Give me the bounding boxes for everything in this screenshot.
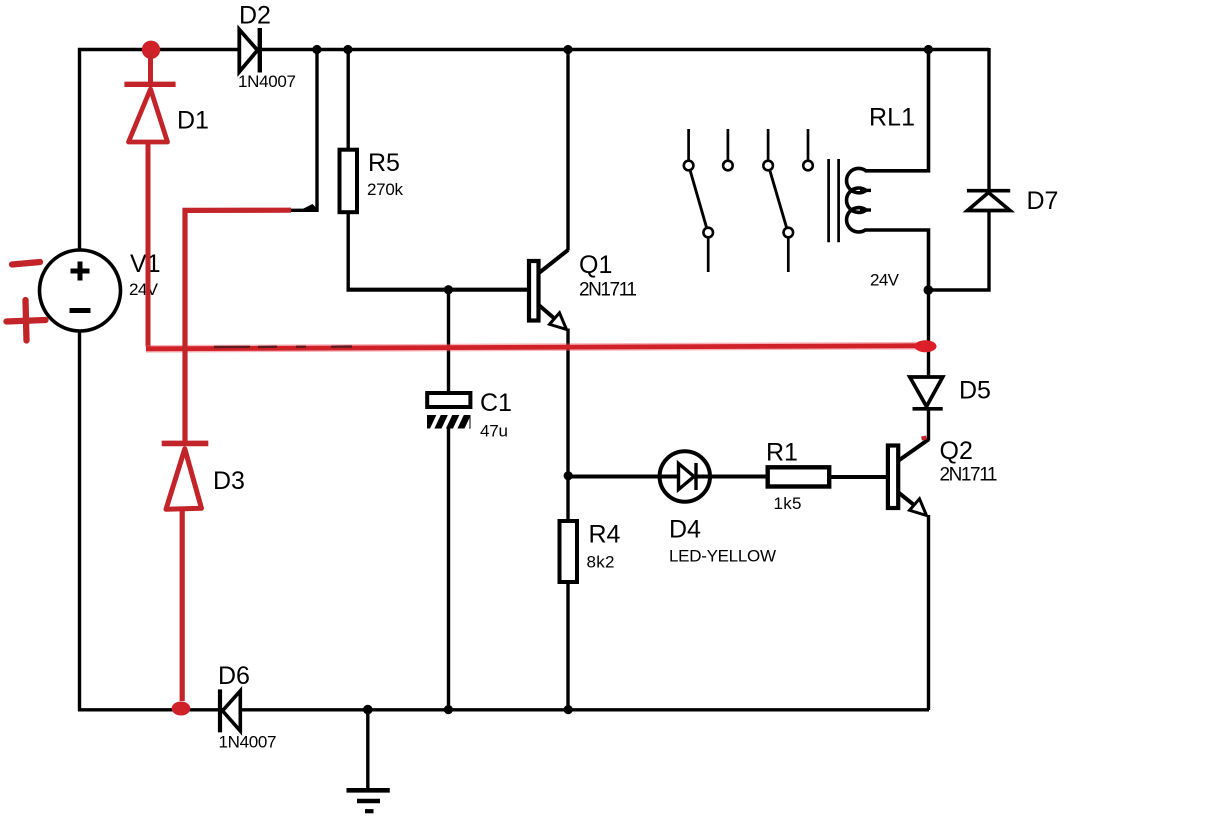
svg-text:D7: D7 — [1027, 187, 1059, 215]
wire relay right vertical from top rail — [865, 50, 929, 171]
svg-text:D3: D3 — [213, 467, 245, 495]
red annotation: marker line end blob — [915, 340, 937, 352]
svg-text:47u: 47u — [480, 422, 508, 441]
diode D5 — [910, 377, 991, 409]
wire Q1 base horizontal — [347, 288, 531, 292]
diode D6 — [218, 662, 277, 752]
svg-text:D6: D6 — [218, 662, 250, 690]
LED D4 — [660, 451, 776, 565]
svg-text:1N4007: 1N4007 — [219, 733, 277, 752]
svg-text:RL1: RL1 — [869, 104, 915, 132]
transistor Q1 — [529, 250, 637, 330]
wire stub from top rail down to red tap node — [286, 50, 317, 211]
diode D7 — [967, 187, 1059, 215]
svg-text:2N1711: 2N1711 — [579, 280, 637, 301]
svg-text:LED-YELLOW: LED-YELLOW — [669, 547, 776, 566]
red annotation: dark smudges on marker line — [214, 345, 352, 348]
svg-text:D2: D2 — [239, 2, 271, 30]
wire D5 cathode to Q2 collector — [927, 407, 930, 441]
wire R1 to Q2 base — [829, 475, 889, 479]
ground — [347, 790, 390, 811]
resistor R4 — [560, 521, 621, 583]
voltage source V1 — [40, 250, 161, 331]
svg-text:Q2: Q2 — [940, 437, 973, 465]
red annotation: tap branch wire — [185, 210, 291, 442]
wire C1 bottom to bottom rail — [447, 427, 450, 710]
red annotation: diode D1 — [124, 52, 175, 347]
svg-text:24V: 24V — [129, 280, 159, 299]
wire node 24V to D7 bottom — [927, 211, 989, 290]
relay switch poles (circles) — [684, 161, 813, 238]
svg-text:Q1: Q1 — [579, 251, 612, 279]
red annotation: long horizontal marker line — [146, 346, 926, 349]
svg-text:1N4007: 1N4007 — [238, 72, 296, 91]
svg-text:D4: D4 — [669, 516, 701, 544]
diode D2 — [238, 2, 296, 92]
svg-text:D1: D1 — [177, 107, 209, 135]
wire LED branch horizontal — [568, 475, 769, 479]
svg-text:270k: 270k — [367, 180, 404, 199]
svg-text:R5: R5 — [368, 149, 400, 177]
relay switch blades — [690, 170, 787, 228]
red annotation: small mark at Q2 collector — [922, 438, 927, 439]
red annotation: supply polarity minus — [12, 262, 40, 265]
wire D7 top to top rail — [987, 48, 990, 192]
wire relay coil bottom to node — [865, 230, 929, 290]
wire ground drop — [366, 710, 369, 790]
svg-text:1k5: 1k5 — [774, 494, 802, 513]
red annotation: supply polarity plus — [7, 300, 46, 341]
red annotation: diode D3 — [162, 443, 209, 701]
resistor R1 — [766, 439, 829, 514]
capacitor C1 — [427, 389, 512, 441]
wire Q1 collector vertical to top rail — [566, 50, 569, 251]
wire Q2 emitter vertical to bottom rail — [927, 515, 930, 710]
relay switch contact stubs — [689, 129, 808, 272]
svg-text:C1: C1 — [480, 389, 512, 417]
red annotation: node dot at top rail — [142, 41, 160, 59]
svg-text:R1: R1 — [766, 439, 798, 467]
wire node to C1 top — [447, 290, 450, 395]
relay RL1 coil core lines — [829, 159, 839, 242]
resistor R5 — [340, 149, 404, 212]
wire top rail to R5 — [347, 50, 350, 152]
svg-text:2N1711: 2N1711 — [940, 465, 998, 486]
svg-text:8k2: 8k2 — [587, 553, 615, 572]
svg-text:R4: R4 — [589, 521, 621, 549]
svg-text:D5: D5 — [959, 377, 991, 405]
wire R5 to Q1 base node — [347, 211, 350, 290]
svg-text:V1: V1 — [130, 250, 161, 278]
relay RL1 coil — [847, 168, 871, 232]
transistor Q2 — [888, 437, 998, 516]
svg-text:24V: 24V — [870, 271, 900, 290]
wire R4 bottom to bottom rail — [566, 582, 569, 710]
wire D5 anode from red node — [927, 290, 930, 378]
wire top rail — [80, 50, 990, 712]
red annotation: branch end blob at bottom rail — [172, 702, 191, 716]
wire Q1 emitter vertical down — [566, 329, 569, 522]
wire bottom rail — [78, 708, 929, 711]
node junction dots — [312, 45, 933, 714]
